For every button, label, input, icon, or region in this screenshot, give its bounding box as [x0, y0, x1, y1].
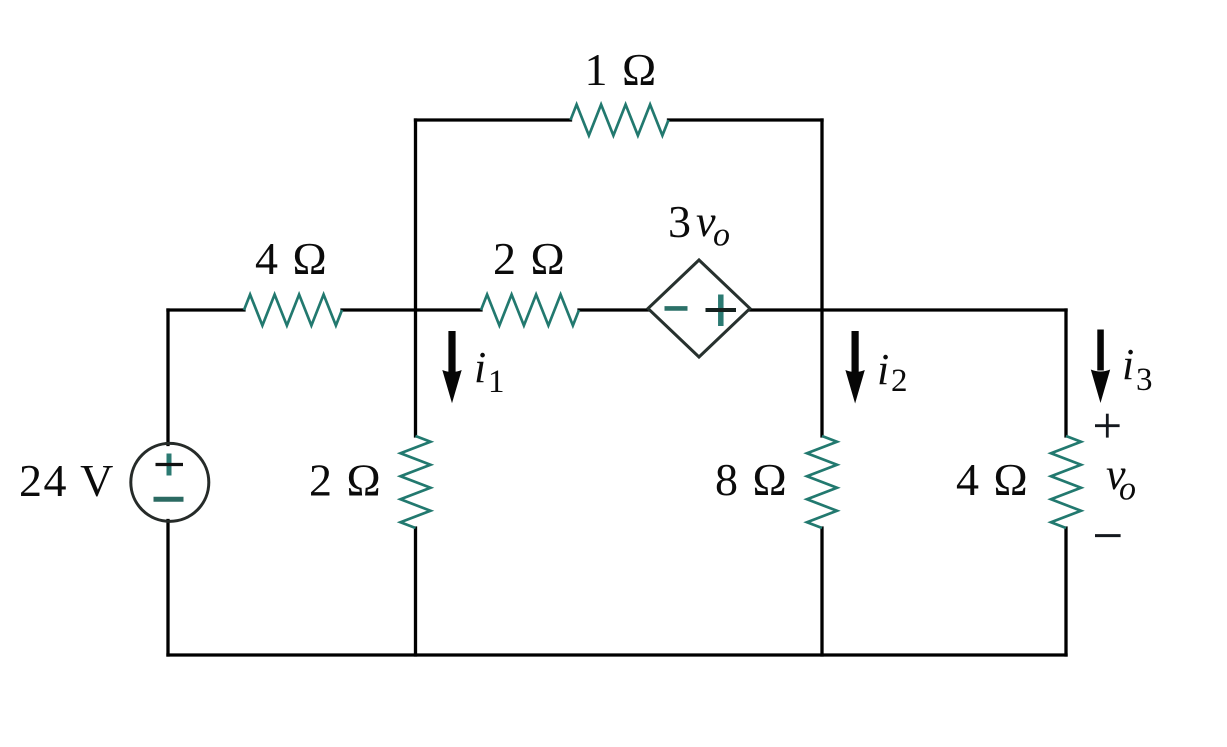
voltage source plus sign	[156, 454, 184, 476]
svg-text:24 V: 24 V	[19, 455, 115, 506]
wire right vertical upper	[1064, 310, 1067, 436]
svg-text:o: o	[1119, 471, 1136, 508]
wire top-left segment	[416, 118, 571, 121]
wire top-right segment	[669, 118, 823, 121]
wire left vertical below source	[166, 521, 169, 656]
svg-text:4 Ω: 4 Ω	[255, 233, 328, 284]
svg-text:8 Ω: 8 Ω	[715, 454, 788, 505]
svg-text:1 Ω: 1 Ω	[585, 44, 658, 95]
label minus (vo polarity)	[1095, 534, 1121, 537]
svg-text:i: i	[877, 345, 889, 394]
svg-text:3: 3	[1136, 362, 1153, 398]
svg-text:2 Ω: 2 Ω	[493, 233, 566, 284]
label i1	[474, 343, 505, 400]
svg-text:1: 1	[488, 364, 505, 400]
svg-text:i: i	[1122, 340, 1134, 389]
voltage source V1 24V circle	[131, 443, 209, 521]
wire vertical branch 1 lower	[414, 528, 417, 655]
label plus (vo polarity)	[1095, 414, 1120, 438]
wire left vertical above source	[166, 310, 169, 445]
current arrow i2	[845, 331, 864, 404]
resistor 4 ohm (middle-left horizontal)	[244, 295, 342, 326]
resistor 2 ohm (middle horizontal)	[481, 295, 579, 326]
wire vertical branch 2 lower	[820, 528, 823, 655]
svg-text:2: 2	[891, 363, 908, 399]
dependent source 3vo diamond	[648, 260, 750, 357]
resistor 1 ohm (top)	[571, 105, 669, 136]
current arrow i3	[1091, 330, 1110, 404]
wire vertical branch 2 upper	[820, 120, 823, 436]
label i2	[877, 345, 908, 399]
label 3vo (dependent source)	[668, 196, 730, 254]
svg-text:2 Ω: 2 Ω	[309, 455, 382, 506]
wire middle: 2-ohm to dependent source	[579, 308, 649, 311]
wire middle: 4-ohm to 2-ohm through node A	[342, 308, 481, 311]
current arrow i1	[442, 331, 461, 403]
wire middle: dependent source to right node	[750, 308, 1067, 311]
wire vertical branch 1 upper	[414, 120, 417, 436]
resistor 4 ohm (right vertical)	[1051, 436, 1081, 528]
wire right vertical lower	[1064, 528, 1067, 655]
wire bottom rail	[168, 653, 1066, 656]
svg-text:o: o	[713, 217, 730, 254]
svg-text:i: i	[474, 343, 486, 392]
voltage source minus sign	[154, 497, 184, 502]
wire middle: left node to 4-ohm	[168, 308, 244, 311]
label vo	[1106, 450, 1136, 508]
resistor 8 ohm (vertical)	[807, 436, 837, 528]
resistor 2 ohm (left vertical)	[401, 436, 431, 528]
svg-text:3: 3	[668, 196, 691, 247]
label i3	[1122, 340, 1153, 398]
dependent source plus sign	[706, 295, 737, 327]
svg-text:4 Ω: 4 Ω	[956, 454, 1029, 505]
dependent source minus sign	[665, 306, 688, 311]
